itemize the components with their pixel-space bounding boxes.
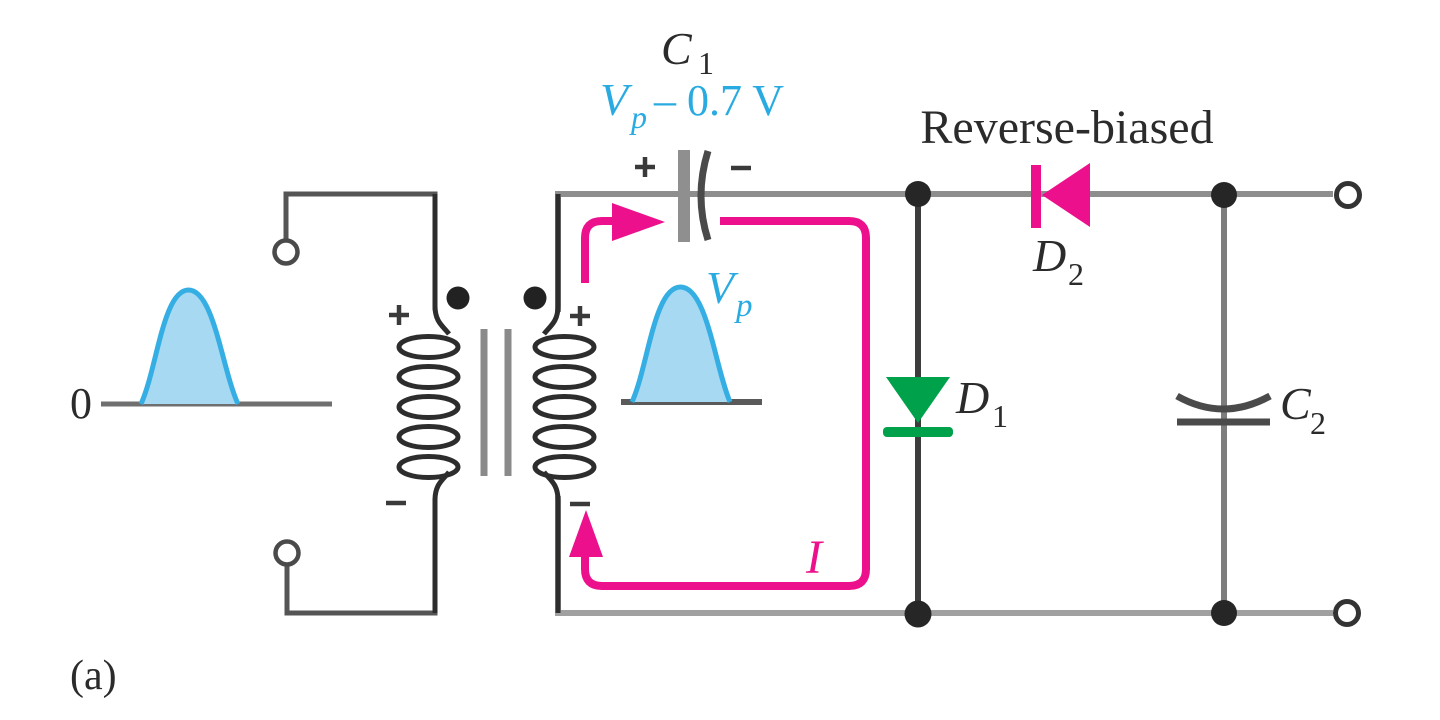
polarity - (secondary bottom) [570,502,590,507]
polarity - (C1 right) [731,166,751,171]
diode D2 (pink, reverse-biased) [1031,163,1090,228]
transformer phasing dot (secondary) [524,287,547,310]
svg-text:– 0.7 V: – 0.7 V [653,76,784,125]
svg-text:1: 1 [992,398,1008,434]
node dot (top, C2 junction) [1211,182,1237,208]
transformer phasing dot (primary) [447,287,470,310]
wire: input source baseline [101,402,332,407]
svg-text:I: I [805,531,824,584]
node dot (top, D1 junction) [905,181,931,207]
svg-text:D: D [955,372,989,423]
svg-text:V: V [600,74,633,125]
polarity + (primary top) [389,305,409,325]
svg-text:V: V [706,262,739,313]
capacitor C2 plates [1177,396,1270,409]
polarity + (secondary top) [570,306,590,326]
wire: bottom rail (secondary bottom to output) [558,496,1333,613]
svg-text:p: p [734,288,753,324]
current loop I (pink), left+top-left segment with arrow [585,221,866,586]
polarity + (C1 left) [635,157,655,177]
wire: input top lead (terminal to primary) [286,194,435,310]
input terminal (bottom) [276,542,299,565]
transformer primary winding [399,194,458,613]
wire: C2 branch vertical [1221,194,1227,613]
svg-text:Reverse-biased: Reverse-biased [920,101,1213,154]
svg-text:C: C [661,23,693,74]
svg-text:2: 2 [1068,256,1084,292]
secondary pulse baseline [621,399,762,405]
svg-text:p: p [629,99,647,135]
current arrow (bottom-left, pointing up) [569,510,603,557]
input terminal (top) [275,241,298,264]
input pulse (blue half-sine) [141,290,238,404]
output terminal (bottom) [1336,602,1359,625]
output terminal (top) [1337,184,1360,207]
capacitor C1 plates [678,150,690,242]
svg-text:C: C [1280,378,1312,429]
wire: top rail (secondary top to output) [558,194,1333,312]
secondary pulse Vp (blue half-sine) [632,287,730,402]
transformer core [481,329,488,476]
svg-text:2: 2 [1310,405,1326,441]
wire: input bottom lead (terminal to primary) [287,498,435,613]
current arrow (top, pointing right) [612,203,665,241]
node dot (bottom, D1 junction) [905,601,932,628]
wire: D1 branch vertical [915,194,921,613]
svg-text:0: 0 [70,379,92,428]
transformer secondary winding [535,194,594,613]
svg-text:(a): (a) [70,653,117,699]
diode D1 (green) [883,377,953,437]
polarity - (primary bottom) [386,501,406,506]
label Vp - 0.7 V (blue) [600,74,784,135]
node dot (bottom, C2 junction) [1211,600,1237,626]
svg-text:D: D [1032,230,1066,281]
